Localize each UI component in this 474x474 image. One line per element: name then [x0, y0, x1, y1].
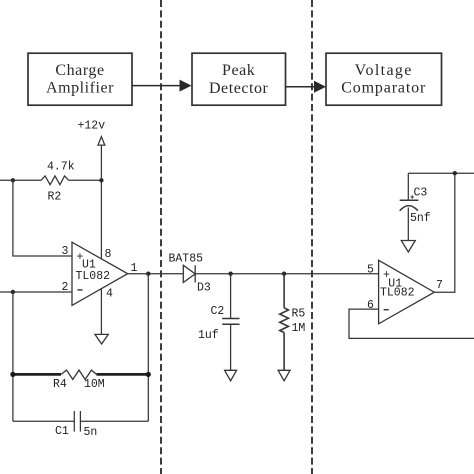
junction node C2	[228, 272, 232, 276]
svg-text:BAT85: BAT85	[169, 253, 204, 266]
inverting input minus marker	[77, 289, 82, 291]
arrow: peak detector to voltage comparator	[286, 81, 327, 93]
svg-text:Peak: Peak	[222, 62, 255, 79]
wire: +12v down to pin 8	[100, 145, 102, 258]
ground symbol (C3)	[401, 241, 415, 253]
svg-text:7: 7	[436, 279, 443, 292]
capacitor C3 bottom wire	[407, 208, 409, 241]
arrow: charge amplifier to peak detector	[133, 80, 192, 92]
svg-text:1: 1	[131, 262, 138, 275]
resistor R5 zigzag	[280, 308, 289, 333]
diode D3	[183, 265, 195, 282]
resistor R4 wire (thick)	[13, 373, 61, 376]
svg-text:Charge: Charge	[55, 62, 104, 79]
svg-text:R2: R2	[48, 191, 62, 204]
dashed separator line 1	[160, 0, 162, 474]
svg-text:5: 5	[367, 264, 374, 277]
wire: input to pin 2	[0, 291, 72, 293]
inverting input minus marker	[384, 309, 389, 311]
svg-text:3: 3	[62, 245, 69, 258]
main wire: diode to comparator input	[195, 273, 378, 275]
svg-text:8: 8	[105, 248, 112, 261]
op-amp U1 TL082 (charge amplifier)	[72, 242, 138, 305]
ground symbol (C2)	[225, 370, 237, 381]
junction node R2/+12v	[99, 178, 103, 182]
op-amp U1 TL082 (voltage comparator)	[367, 260, 443, 324]
wire: C1 right segment	[80, 420, 148, 422]
resistor R2 zigzag	[41, 176, 69, 185]
block: Charge Amplifier	[28, 53, 132, 105]
capacitor C3 flat plate	[400, 199, 419, 201]
svg-text:TL082: TL082	[76, 270, 111, 283]
capacitor C2 top wire	[230, 274, 232, 319]
svg-text:Voltage: Voltage	[355, 62, 413, 79]
svg-text:TL082: TL082	[380, 287, 415, 300]
capacitor C3 top wire	[407, 173, 409, 200]
svg-text:R4: R4	[53, 378, 67, 391]
junction node R4 right	[146, 372, 151, 377]
capacitor C3 curved plate	[400, 206, 418, 211]
block: Voltage Comparator	[326, 53, 442, 105]
svg-text:5nf: 5nf	[410, 212, 431, 225]
capacitor C2 bottom wire	[230, 324, 232, 370]
ground symbol (op-amp pin 4)	[95, 334, 108, 344]
dashed separator line 2	[311, 0, 313, 474]
wire: C1 left segment	[13, 420, 74, 422]
svg-text:C1: C1	[55, 425, 69, 438]
wire: R2 right segment	[69, 179, 102, 181]
svg-text:4: 4	[106, 288, 113, 301]
capacitor C1 plates	[73, 411, 75, 432]
ground symbol (R5)	[278, 370, 290, 381]
svg-text:10M: 10M	[84, 378, 105, 391]
junction node R5	[282, 272, 286, 276]
resistor R4 zigzag	[61, 370, 97, 379]
junction node on pin 2 wire	[11, 290, 15, 294]
junction node output rail	[453, 171, 457, 175]
svg-text:C2: C2	[211, 305, 225, 318]
svg-text:C3: C3	[414, 187, 428, 200]
svg-text:D3: D3	[197, 282, 211, 295]
svg-text:Comparator: Comparator	[341, 80, 426, 97]
svg-text:5n: 5n	[84, 426, 98, 439]
resistor R5 bottom wire	[283, 333, 285, 371]
svg-text:R5: R5	[292, 308, 306, 321]
capacitor C2 plates	[222, 318, 239, 320]
wire: left vertical pin2 node down to C1	[12, 292, 14, 421]
wire: pin 4 down to ground	[100, 289, 102, 335]
svg-text:6: 6	[367, 299, 374, 312]
wire: comparator output	[434, 173, 455, 292]
svg-text:1uf: 1uf	[198, 329, 219, 342]
junction node on R2 wire left	[11, 178, 15, 182]
wire: R4 right segment (thick)	[97, 373, 149, 376]
wire: R2 left segment to edge	[0, 179, 41, 181]
wire: top output rail	[408, 172, 474, 174]
svg-text:+12v: +12v	[78, 120, 106, 133]
svg-text:1M: 1M	[292, 322, 306, 335]
svg-text:Amplifier: Amplifier	[46, 80, 114, 97]
block: Peak Detector	[192, 53, 286, 105]
wire: node down to pin 3	[13, 180, 72, 256]
svg-text:2: 2	[62, 281, 69, 294]
capacitor C3 plus mark	[411, 195, 415, 199]
junction node R4 left	[10, 372, 15, 377]
+12v power arrow symbol	[98, 137, 105, 146]
wire: feedback right vertical	[147, 274, 149, 422]
junction node output/feedback	[146, 272, 150, 276]
resistor R5 top wire	[283, 274, 285, 308]
svg-text:Detector: Detector	[209, 80, 269, 97]
wire: op-amp output pin 1	[128, 273, 184, 275]
wire: pin 6 feedback	[349, 309, 474, 338]
svg-text:4.7k: 4.7k	[47, 161, 75, 174]
